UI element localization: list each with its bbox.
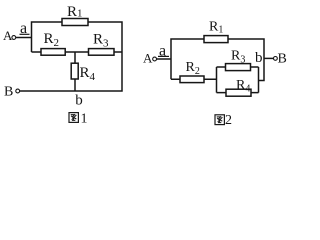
svg-text:B: B <box>278 52 287 67</box>
svg-text:R4: R4 <box>80 65 96 83</box>
svg-text:1: 1 <box>81 112 88 127</box>
svg-text:R3: R3 <box>231 49 245 66</box>
svg-text:R1: R1 <box>209 20 223 36</box>
svg-text:R2: R2 <box>186 60 200 77</box>
svg-text:2: 2 <box>225 113 232 128</box>
svg-text:R1: R1 <box>67 4 83 20</box>
svg-text:A: A <box>3 28 13 43</box>
svg-text:R3: R3 <box>93 32 109 50</box>
svg-text:b: b <box>255 50 263 66</box>
svg-text:b: b <box>75 93 83 109</box>
svg-text:a: a <box>159 43 166 60</box>
svg-text:R2: R2 <box>44 31 60 49</box>
svg-text:R4: R4 <box>236 78 250 95</box>
svg-text:B: B <box>4 85 13 100</box>
svg-text:A: A <box>143 51 153 66</box>
svg-text:a: a <box>20 20 27 37</box>
